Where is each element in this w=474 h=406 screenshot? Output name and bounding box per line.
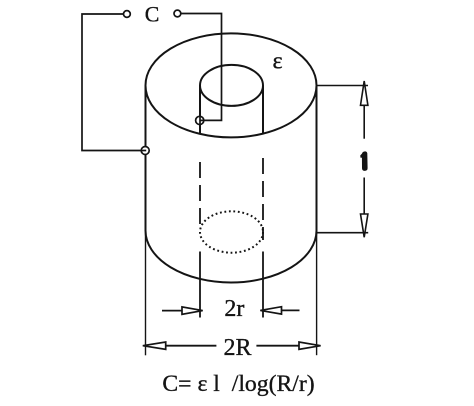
svg-text:2R: 2R [224, 335, 252, 361]
svg-text:C: C [145, 2, 160, 27]
svg-text:C= ε l /log(R/r): C= ε l /log(R/r) [162, 371, 314, 397]
svg-text:ε: ε [273, 48, 283, 74]
svg-text:2r: 2r [224, 296, 244, 322]
